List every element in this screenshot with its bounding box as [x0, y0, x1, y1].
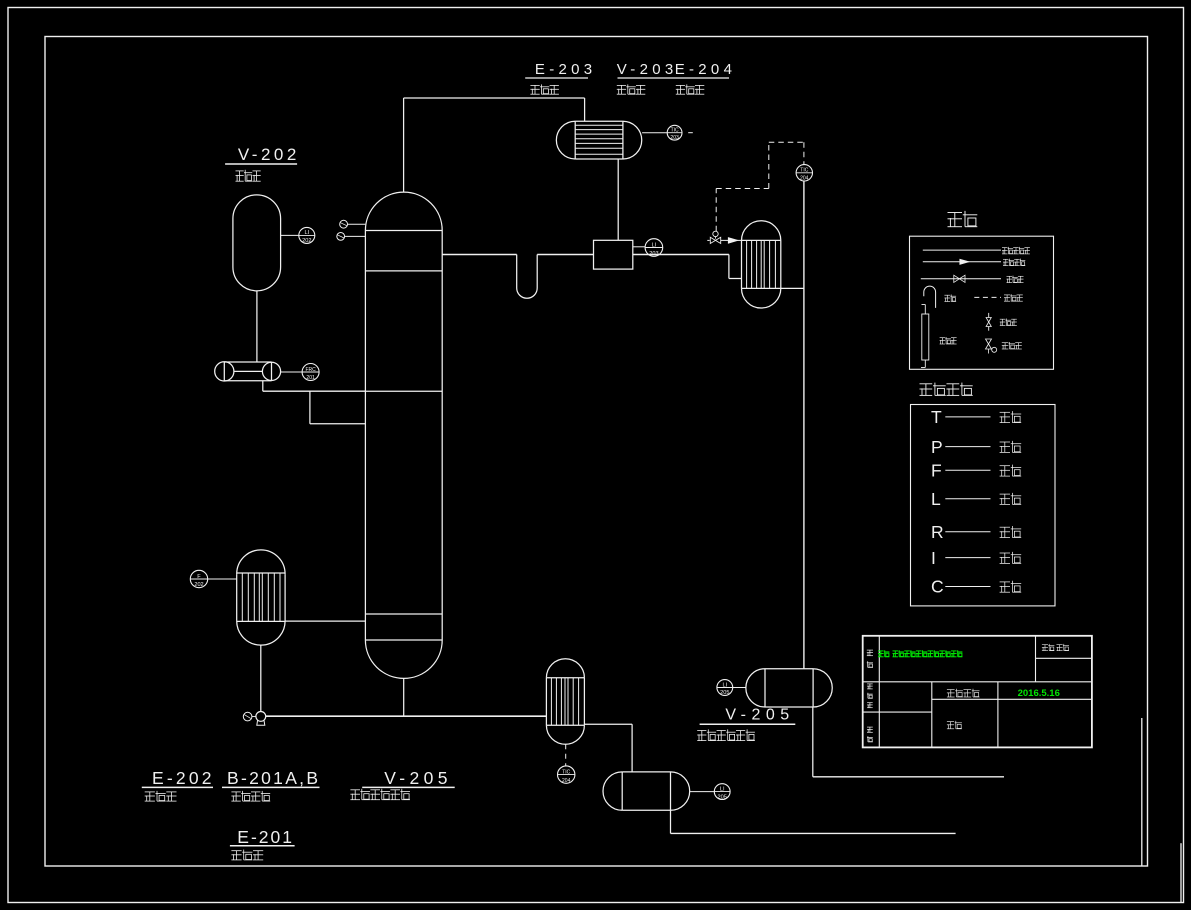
svg-text:201: 201 [306, 375, 315, 381]
legend stop valve line [921, 278, 1001, 280]
label 冷凝器 [530, 85, 539, 94]
condenser E-203 shell [575, 121, 623, 159]
wire overhead horizontal run [404, 97, 585, 99]
wire control signal dashed top run [769, 141, 804, 143]
instrument TIC-203 [642, 132, 667, 134]
pump B-201A circle [215, 362, 234, 381]
column top head [365, 192, 442, 230]
wire condensate drop to V-203 [617, 159, 619, 240]
label 放空 [944, 295, 950, 301]
label 工艺物料线 [1002, 248, 1008, 254]
svg-text:E-201: E-201 [237, 827, 294, 847]
column feed tray line [365, 390, 442, 392]
label 再沸器 [145, 792, 155, 801]
column tray line 1 [365, 230, 442, 232]
label 截止阀 [1007, 276, 1013, 282]
wire reflux line to V-203 [537, 254, 593, 256]
instrument LI-205 bottom [689, 791, 714, 793]
wire dashed to TIC bubble below cooler [565, 744, 567, 766]
wire V-203 outlet right [633, 254, 729, 256]
svg-text:204: 204 [562, 778, 571, 784]
svg-text:202: 202 [302, 238, 311, 244]
svg-text:V-203: V-203 [617, 61, 678, 78]
wire E-204 outlet to product line [781, 287, 804, 289]
instrument bubble top-left 1 [348, 223, 366, 225]
title block outer [863, 636, 1092, 748]
label 物料流向 [1003, 259, 1009, 265]
svg-text:L: L [931, 489, 941, 509]
wire control signal dashed drop to TIC-204 [803, 142, 805, 164]
wire stub left of control valve [707, 239, 709, 241]
wire V-205 outlet down [812, 707, 814, 777]
legend control valve symbol [986, 339, 992, 349]
svg-text:205: 205 [718, 794, 727, 800]
title block green project title [878, 651, 884, 657]
column tray line 2 [365, 270, 442, 272]
vessel V-205 top product tank [765, 669, 813, 707]
instrument TIC-204 [796, 165, 812, 181]
svg-text:TIC: TIC [800, 168, 808, 174]
bottoms cooler tubes [550, 678, 552, 726]
svg-text:LI: LI [304, 230, 309, 236]
reboiler E-202 shell [237, 574, 285, 621]
title block label 制图号 [867, 684, 873, 689]
legend control (dashed) line [974, 296, 1001, 298]
column bottom head [365, 640, 442, 678]
svg-text:R: R [931, 522, 944, 542]
label 冷却器 [676, 85, 685, 94]
svg-text:F: F [931, 461, 942, 481]
label 混合液泵 [231, 792, 240, 801]
title block grid lines [878, 636, 880, 748]
wire distillate product line down to V-205 [803, 181, 805, 669]
vessel V-202 head tank [233, 195, 281, 291]
label 高位槽 [236, 171, 244, 181]
extra border line right-bottom (inner) [1141, 718, 1143, 866]
label 塔釜产品贮槽 [350, 790, 360, 800]
wire V-202 outlet down to pump [256, 291, 258, 362]
svg-text:E-204: E-204 [675, 61, 737, 78]
table title 符号说明 [920, 384, 933, 396]
instrument FRC-201 [281, 371, 303, 373]
instrument bubble top-left 2 [345, 235, 366, 237]
wire drop into condenser E-203 [584, 98, 586, 121]
reboiler E-202 tubes [241, 573, 243, 621]
wire bottoms tank outlet down [670, 810, 672, 833]
svg-text:P: P [931, 437, 943, 457]
control valve [710, 237, 720, 243]
wire signal stub right of TIC-203 [688, 132, 693, 134]
svg-text:V-205: V-205 [384, 768, 452, 788]
svg-text:V-202: V-202 [238, 145, 300, 164]
wire drop to bottoms tank [631, 724, 633, 772]
wire feed branch into column [310, 423, 366, 425]
svg-text:I: I [931, 548, 936, 568]
wire control signal dashed horizontal [716, 188, 769, 190]
legend process line [923, 249, 1001, 251]
svg-text:204: 204 [800, 176, 809, 182]
flow arrow into E-204 [721, 239, 742, 241]
instrument LI-205 top [733, 687, 747, 689]
label 灭火器 [1000, 319, 1006, 325]
svg-text:F: F [197, 574, 201, 580]
title block label 学院 [947, 722, 954, 729]
wire control signal dashed riser from valve [715, 189, 717, 232]
instrument LI-203 [633, 246, 645, 248]
label 预热器 [231, 851, 241, 860]
svg-text:TIC: TIC [562, 769, 570, 775]
cooler E-204 tubes [746, 240, 748, 288]
wire feed line to column [263, 390, 366, 392]
title block label 班级 学号 [1042, 645, 1048, 651]
pump casing lines [224, 361, 271, 363]
label 液位器 [940, 338, 946, 344]
svg-text:203: 203 [670, 135, 679, 141]
distillation column shell [364, 231, 366, 641]
wire overhead vapor riser [403, 98, 405, 192]
svg-text:E-202: E-202 [152, 768, 215, 788]
condenser E-203 tubes [575, 124, 623, 126]
vessel V-205 bottoms product tank [622, 772, 670, 810]
wire bottoms main line [266, 715, 547, 717]
wire product line right [813, 776, 1004, 778]
legend fire-extinguisher symbol [988, 313, 990, 318]
svg-text:V-205: V-205 [725, 707, 794, 724]
U liquid seal [517, 255, 538, 299]
svg-text:LI: LI [722, 682, 727, 688]
svg-text:LI: LI [652, 242, 657, 248]
svg-text:202: 202 [194, 582, 203, 588]
title block label 审核 [867, 727, 873, 732]
title block label 名称 [867, 650, 873, 656]
wire step down [728, 255, 730, 279]
svg-text:T: T [931, 407, 942, 427]
wire reboiler vapor return to column [285, 620, 365, 622]
instrument TIC-204 below cooler [558, 766, 575, 783]
svg-text:B-201A,B: B-201A,B [227, 768, 320, 788]
pump B-201B circle [262, 362, 280, 380]
label 回流槽 [617, 85, 626, 94]
wire pump discharge down [262, 381, 264, 391]
vessel V-203 reflux drum [594, 240, 633, 269]
svg-text:LI: LI [720, 786, 725, 792]
wire into E-204 [729, 278, 742, 280]
svg-text:E-203: E-203 [535, 61, 597, 78]
wire column bottoms drop [403, 678, 405, 716]
wire control signal dashed riser [768, 142, 770, 188]
legend box [910, 236, 1054, 369]
label 控制线 [1004, 295, 1010, 301]
instrument F-202 at reboiler [208, 578, 237, 580]
bottoms cooler shell [546, 678, 584, 726]
extra border line right-bottom (outer) [1180, 843, 1182, 902]
label 塔顶产品贮槽 [697, 731, 706, 741]
wire bottoms product line right [671, 832, 956, 834]
column tray line 4 [365, 639, 442, 641]
legend title 图例 [948, 213, 963, 227]
cooler E-204 shell [742, 240, 781, 288]
instrument bubble at bottoms pump [243, 712, 252, 721]
svg-text:2016.5.16: 2016.5.16 [1018, 688, 1060, 699]
wire cooler outlet right [584, 723, 632, 725]
instrument LI-202 [281, 234, 299, 236]
label 控制阀 [1002, 343, 1009, 349]
wire feed branch down [309, 391, 311, 424]
title block label 制图日期 [947, 690, 955, 697]
wire reboiler outlet down to pump [260, 645, 262, 712]
column tray line 3 [365, 613, 442, 615]
legend level gauge symbol [924, 305, 926, 315]
symbol table box [911, 405, 1056, 606]
legend flow arrow line [923, 261, 1001, 263]
svg-text:FRC: FRC [305, 367, 316, 373]
svg-text:205: 205 [720, 690, 729, 696]
svg-text:C: C [931, 577, 944, 597]
wire reflux line from column [442, 254, 517, 256]
svg-text:TIC: TIC [671, 128, 679, 134]
bottoms pump [256, 712, 266, 722]
legend vent symbol [924, 286, 936, 308]
